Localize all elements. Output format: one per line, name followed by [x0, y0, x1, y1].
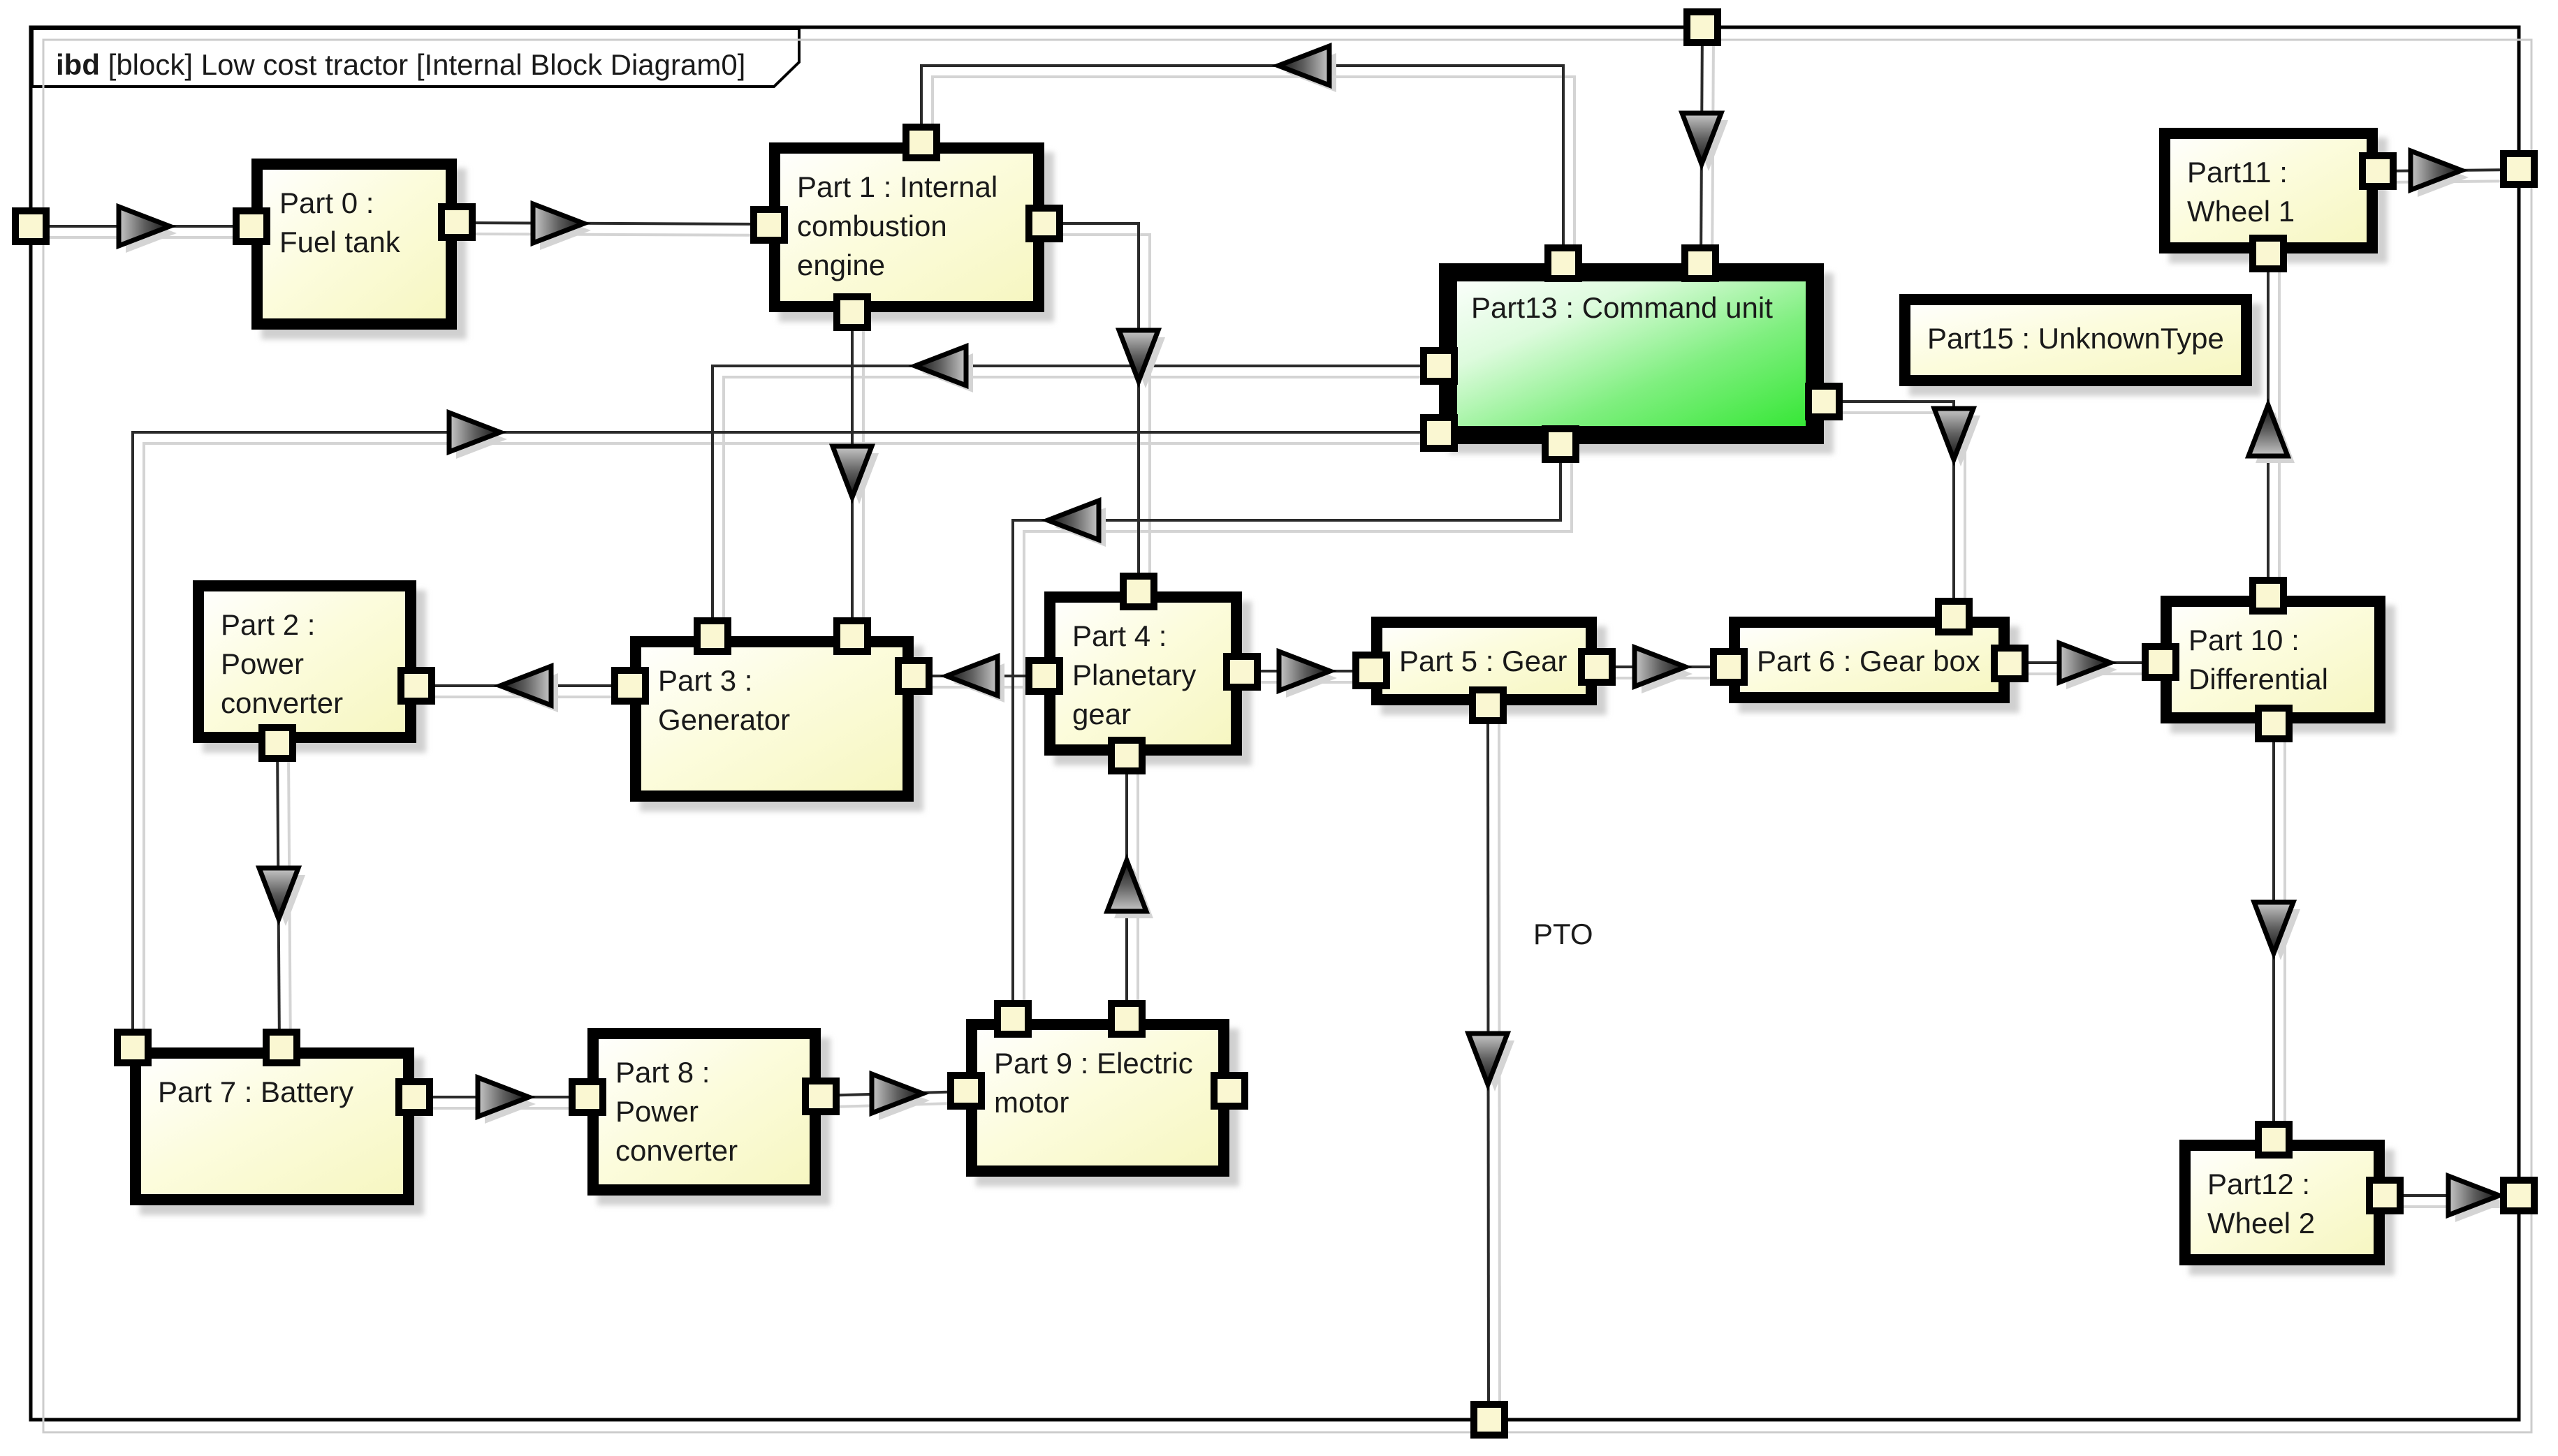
arrowhead of connector Part0 to Part1	[533, 204, 591, 250]
arrowhead of connector Part2 to Part7	[259, 868, 305, 926]
port on frame right edge (to Wheel 2)	[2504, 1180, 2534, 1211]
port Part4 bottom	[1111, 740, 1142, 771]
svg-text:Wheel 2: Wheel 2	[2207, 1207, 2315, 1240]
svg-text:Part 0 :: Part 0 :	[279, 186, 374, 219]
block Part 6 Gear box	[1734, 622, 2019, 713]
port Part7 top-left	[117, 1032, 148, 1063]
port Part13 left2	[1424, 418, 1454, 448]
wire shadow: connector Part13 to Part3 (top1)	[724, 377, 1450, 647]
block Part 2 Power converter	[198, 586, 426, 753]
label PTO	[1533, 918, 1593, 950]
wire shadow: connector Part10 to Part12	[2283, 735, 2286, 1151]
wire: connector Part1 to Part3 (top2)	[851, 312, 854, 636]
port Part13 left1	[1424, 351, 1454, 381]
svg-text:engine: engine	[797, 249, 885, 281]
port Part9 right	[1214, 1075, 1245, 1106]
svg-text:Part 7 : Battery: Part 7 : Battery	[158, 1075, 353, 1108]
wire: connector Part10 to Part12	[2272, 723, 2275, 1140]
wire: connector Part9 to Part4	[1125, 756, 1128, 1019]
svg-text:Part 6 : Gear box: Part 6 : Gear box	[1757, 645, 1980, 677]
wire: connector Part11 to frame-right	[2378, 170, 2519, 171]
svg-text:ibd [block] Low cost tractor [: ibd [block] Low cost tractor [Internal B…	[56, 48, 745, 81]
svg-text:Generator: Generator	[658, 703, 790, 736]
wire shadow: connector Part1 to Part4	[1055, 235, 1150, 603]
port Part8 left	[572, 1082, 603, 1112]
svg-text:Planetary: Planetary	[1072, 659, 1196, 691]
port on frame left edge	[15, 211, 46, 242]
wire: connector Part7 to Part8	[414, 1096, 587, 1098]
wire shadow: connector Part9 to Part4	[1137, 767, 1139, 1030]
port Part9 left	[951, 1075, 981, 1106]
svg-text:Part13 : Command unit: Part13 : Command unit	[1471, 291, 1773, 324]
wire shadow: connector Part7 to Part8	[425, 1107, 599, 1110]
wire: connector Part10 to Part11	[2267, 253, 2270, 596]
port Part7 right	[399, 1082, 430, 1112]
wire shadow: connector Part4 to Part5	[1253, 681, 1382, 684]
port Part5 bottom	[1472, 690, 1503, 721]
block Part15 UnknownType	[1905, 300, 2262, 396]
wire shadow: connector Part3 to Part2	[427, 696, 641, 698]
wire: connector Part13 to Part6	[1824, 402, 1954, 617]
port Part11 right	[2362, 156, 2393, 186]
port Part6 right	[1994, 648, 2025, 679]
port Part4 top	[1123, 576, 1154, 607]
port Part13 top1	[1548, 248, 1579, 279]
block Part13 Command unit	[1448, 272, 1834, 454]
wire shadow: connector Part8 to Part9	[832, 1103, 977, 1107]
port Part5 right	[1581, 652, 1612, 682]
wire: connector Part3 to Part2	[416, 684, 630, 687]
port Part13 bottom	[1545, 429, 1576, 459]
wire shadow: connector Part1 to Part3 (top2)	[862, 323, 865, 647]
svg-text:Wheel 1: Wheel 1	[2187, 195, 2295, 228]
wire shadow: connector Part7 to Part13	[144, 443, 1450, 1059]
arrowhead of connector Part13 to Part9	[1048, 501, 1106, 547]
arrowhead of connector Part10 to Part11	[2249, 405, 2295, 463]
port Part0 left	[236, 211, 267, 242]
port Part4 left	[1029, 661, 1060, 691]
port Part1 top	[906, 127, 937, 158]
svg-text:motor: motor	[994, 1086, 1069, 1119]
port Part8 right	[805, 1081, 836, 1112]
port Part1 right	[1029, 208, 1060, 239]
port Part10 top	[2253, 580, 2283, 611]
svg-text:Power: Power	[221, 647, 304, 680]
block Part 3 Generator	[636, 642, 923, 811]
port Part13 right	[1808, 386, 1839, 417]
port Part9 top-right	[1111, 1003, 1142, 1034]
port Part4 right	[1227, 656, 1257, 687]
port Part7 top-mid	[266, 1032, 297, 1063]
port Part5 left	[1356, 655, 1387, 686]
port Part6 left	[1713, 652, 1744, 682]
block Part 5 Gear	[1377, 622, 1607, 715]
arrowhead of connector Part12 to frame-right	[2448, 1176, 2506, 1222]
arrowhead of connector Part7 to Part13	[449, 413, 507, 459]
port Part9 top-left	[997, 1003, 1028, 1034]
wire: connector Part8 to Part9	[821, 1091, 966, 1096]
arrowhead of connector Part4 to Part5	[1279, 652, 1337, 698]
port Part2 bottom	[262, 728, 293, 758]
port Part10 bottom	[2258, 708, 2289, 739]
svg-text:converter: converter	[221, 686, 343, 719]
block Part 10 Differential	[2166, 601, 2395, 733]
port Part1 left	[754, 209, 784, 240]
arrowhead of connector Part5 to Part6	[1635, 647, 1693, 693]
arrowhead of connector Part11 to frame-right	[2411, 151, 2469, 197]
port Part0 right	[441, 207, 472, 237]
port Part11 bottom	[2253, 238, 2283, 269]
wire: connector frame-left to Part0	[31, 225, 251, 228]
wire: connector Part5 to Part6	[1597, 666, 1729, 668]
wire shadow: connector Part10 to Part11	[2278, 265, 2281, 607]
wire: connector Part5 to frame-bottom (PTO)	[1488, 705, 1489, 1420]
wire shadow: connector Part11 to frame-right	[2389, 181, 2530, 182]
wire shadow: connector Part2 to Part7	[288, 754, 291, 1059]
wire shadow: connector frame-left to Part0	[42, 236, 263, 239]
wire: connector Part4 to Part5	[1242, 670, 1371, 672]
wire: connector Part0 to Part1	[457, 223, 769, 224]
svg-text:Fuel tank: Fuel tank	[279, 226, 401, 258]
svg-text:Part 3 :: Part 3 :	[658, 664, 752, 697]
block Part 1 Internal combustion engine	[775, 148, 1054, 322]
svg-text:Part 4 :: Part 4 :	[1072, 619, 1167, 652]
wire shadow: connector Part12 to frame-right	[2396, 1205, 2530, 1208]
wire: connector Part13 to Part9	[1013, 444, 1561, 1019]
wire shadow: connector Part0 to Part1	[468, 234, 780, 235]
wire: connector Part2 to Part7	[277, 743, 279, 1047]
svg-text:Part 9 : Electric: Part 9 : Electric	[994, 1047, 1193, 1080]
port Part6 top	[1938, 601, 1969, 632]
arrowhead of connector Part13 to Part6	[1934, 409, 1980, 466]
port Part3 top1	[697, 621, 728, 652]
svg-text:PTO: PTO	[1533, 918, 1593, 950]
arrowhead of connector frame-top to Part13	[1682, 113, 1728, 171]
port Part3 right	[898, 661, 929, 691]
port Part3 top2	[837, 621, 868, 652]
wire: connector frame-top to Part13	[1701, 27, 1702, 263]
port on frame right edge (to Wheel 1)	[2504, 154, 2534, 184]
wire shadow: connector Part13 to Part9	[1024, 455, 1572, 1030]
svg-text:Part 2 :: Part 2 :	[221, 608, 315, 641]
arrowhead of connector Part5 to frame-bottom (PTO)	[1468, 1034, 1514, 1091]
svg-text:Part12 :: Part12 :	[2207, 1168, 2310, 1200]
port Part13 top2	[1685, 248, 1716, 279]
wire: connector Part7 to Part13	[133, 432, 1439, 1047]
arrowhead of connector Part13 to Part1 (top)	[1278, 46, 1336, 92]
block Part 7 Battery	[136, 1053, 424, 1215]
arrowhead of connector Part13 to Part3 (top1)	[915, 346, 973, 392]
diagram title tab	[32, 29, 799, 87]
port Part1 bottom	[837, 297, 868, 328]
block Part11 Wheel 1	[2165, 133, 2388, 263]
port Part10 left	[2145, 647, 2176, 677]
block Part 9 Electric motor	[972, 1024, 1239, 1186]
svg-text:Part15 : UnknownType: Part15 : UnknownType	[1927, 322, 2224, 355]
arrowhead of connector Part1 to Part4	[1119, 330, 1165, 388]
wire shadow: connector Part13 to Part1 (top)	[933, 77, 1574, 274]
port Part12 top	[2258, 1124, 2289, 1155]
wire shadow: connector Part5 to frame-bottom (PTO)	[1499, 716, 1500, 1431]
wire: connector Part4 to Part3	[914, 675, 1044, 677]
block Part12 Wheel 2	[2185, 1145, 2395, 1275]
wire shadow: connector Part6 to Part10	[2021, 672, 2172, 675]
block Part 8 Power converter	[593, 1034, 831, 1205]
svg-text:gear: gear	[1072, 698, 1131, 730]
arrowhead of connector Part3 to Part2	[500, 666, 558, 712]
arrowhead of connector Part4 to Part3	[947, 656, 1004, 703]
svg-text:converter: converter	[615, 1134, 738, 1167]
port Part3 left	[615, 670, 645, 701]
arrowhead of connector Part10 to Part12	[2254, 902, 2300, 960]
wire: connector Part6 to Part10	[2010, 661, 2161, 664]
svg-text:Part 8 :: Part 8 :	[615, 1056, 710, 1089]
wire shadow: connector Part5 to Part6	[1608, 677, 1740, 679]
port on frame top edge	[1687, 12, 1718, 43]
wire: connector Part1 to Part4	[1044, 223, 1139, 591]
wire: connector Part12 to frame-right	[2385, 1194, 2519, 1197]
block Part 4 Planetary gear	[1050, 597, 1252, 765]
arrowhead of connector Part7 to Part8	[478, 1078, 536, 1124]
port on frame bottom edge (PTO)	[1474, 1404, 1505, 1435]
arrowhead of connector Part9 to Part4	[1107, 860, 1153, 918]
wire shadow: connector frame-top to Part13	[1712, 38, 1713, 274]
svg-text:Differential: Differential	[2188, 663, 2328, 696]
svg-text:Part 10 :: Part 10 :	[2188, 624, 2300, 656]
block Part 0 Fuel tank	[257, 164, 467, 339]
port Part12 right	[2369, 1180, 2400, 1211]
arrowhead of connector frame-left to Part0	[119, 207, 177, 253]
svg-text:Power: Power	[615, 1095, 699, 1128]
svg-text:Part11 :: Part11 :	[2187, 156, 2288, 189]
wire: connector Part13 to Part1 (top)	[921, 66, 1563, 263]
port Part2 right	[401, 670, 432, 701]
arrowhead of connector Part8 to Part9	[872, 1074, 930, 1120]
svg-text:Part 1 : Internal: Part 1 : Internal	[797, 170, 997, 203]
wire shadow: connector Part4 to Part3	[925, 686, 1055, 689]
svg-text:Part 5 : Gear: Part 5 : Gear	[1399, 645, 1567, 677]
svg-text:combustion: combustion	[797, 209, 947, 242]
wire shadow: connector Part13 to Part6	[1835, 413, 1965, 628]
arrowhead of connector Part1 to Part3 (top2)	[833, 446, 879, 504]
wire: connector Part13 to Part3 (top1)	[712, 366, 1439, 636]
arrowhead of connector Part6 to Part10	[2059, 643, 2117, 689]
